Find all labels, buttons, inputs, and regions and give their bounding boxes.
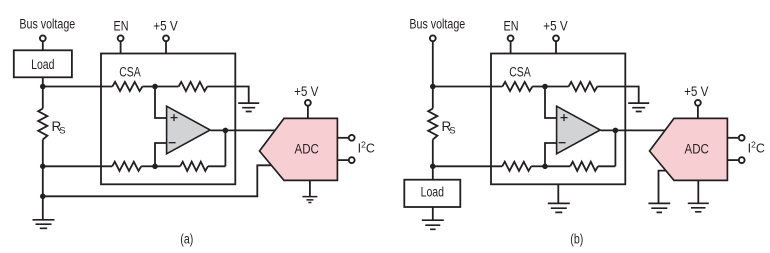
junction node V1 (b) <box>430 84 436 90</box>
junction node P (b) <box>542 84 548 90</box>
terminal +5 V (b) <box>553 35 559 41</box>
wire op-amp output to ADC (b) <box>601 129 665 131</box>
op-amp minus sign (a) <box>169 142 176 144</box>
wire node GNDA to ground (a) <box>42 196 44 220</box>
wire node N to R4 (b) <box>545 165 570 167</box>
terminal Bus voltage (a) <box>40 35 46 41</box>
wire R2 to ground stub (a) <box>207 87 248 104</box>
wire R4 to output node (a) <box>208 165 226 167</box>
svg-text:ADC: ADC <box>685 142 710 157</box>
op-amp plus sign (b) <box>561 114 568 121</box>
svg-text:CSA: CSA <box>509 65 531 80</box>
resistor R4 feedback (b) <box>570 162 598 171</box>
wire node V2 to Load top (b) <box>432 166 434 179</box>
wire node P to R2 (a) <box>155 86 179 88</box>
resistor R3 (a) <box>112 162 141 171</box>
wire ADC I2C pin 1 (a) <box>337 137 348 139</box>
wire ADC bottom to ground (a) <box>309 180 311 196</box>
terminal I2C pin 1 (a) <box>349 135 355 141</box>
svg-text:I2C: I2C <box>748 139 765 155</box>
wire bus terminal to Load top <box>42 41 44 50</box>
svg-text:+5 V: +5 V <box>294 84 318 99</box>
op-amp minus sign (b) <box>559 142 566 144</box>
terminal I2C pin 1 (b) <box>739 135 745 141</box>
wire node V1 to RS top (a) <box>42 87 44 109</box>
terminal EN (b) <box>508 35 514 41</box>
ground ADC sense (b) <box>648 203 670 212</box>
wire +5 V to ADC (a) <box>307 106 309 119</box>
wire R4 to output node (b) <box>598 165 616 167</box>
CSA box U1 (a) <box>101 54 235 185</box>
wire R1 to node P (b) <box>532 86 545 88</box>
wire ADC I2C pin 2 (a) <box>337 159 348 161</box>
svg-text:Load: Load <box>421 185 444 200</box>
wire RS bottom to node V2 (a) <box>42 140 44 167</box>
terminal Bus voltage (b) <box>430 35 436 41</box>
resistor R1 (a) <box>112 82 142 91</box>
wire R2 to ground stub (b) <box>597 87 638 104</box>
wire R3 to node N (a) <box>141 165 155 167</box>
terminal EN (a) <box>118 35 124 41</box>
wire +5 V to CSA box (a) <box>165 41 167 53</box>
junction node V2 (b) <box>430 164 436 170</box>
resistor R4 feedback (a) <box>180 162 208 171</box>
wire feedback from output node (a) <box>224 130 226 166</box>
svg-text:+5 V: +5 V <box>153 19 177 34</box>
resistor R1 (b) <box>502 82 532 91</box>
resistor R2 (b) <box>569 82 598 91</box>
wire feedback from output node (b) <box>614 130 616 166</box>
junction output node (b) <box>613 128 619 134</box>
wire Load bottom to ground (b) <box>432 207 434 220</box>
wire ADC I2C pin 1 (b) <box>727 137 738 139</box>
wire node V2 to R3 (a) <box>43 165 112 167</box>
wire EN to CSA box (a) <box>120 41 122 53</box>
junction node GNDA (a) <box>40 194 46 200</box>
wire ADC sense stub to ground (b) <box>659 171 666 204</box>
wire node V1 to R1 (a) <box>43 86 113 88</box>
wire node P to R2 (b) <box>545 86 569 88</box>
load box Load (a) <box>14 50 72 77</box>
op-amp U2 (b) <box>557 106 601 154</box>
wire node N to op-amp inverting input (a) <box>155 143 167 166</box>
svg-text:(b): (b) <box>570 232 583 247</box>
ground reference (a) <box>238 103 259 111</box>
svg-text:+5 V: +5 V <box>543 19 567 34</box>
ground CSA box (b) <box>548 203 570 212</box>
terminal I2C pin 2 (a) <box>349 157 355 163</box>
wire EN to CSA box (b) <box>510 41 512 53</box>
ground below Load (b) <box>422 220 444 229</box>
svg-text:Bus voltage: Bus voltage <box>19 16 75 31</box>
wire op-amp output to ADC (a) <box>211 129 275 131</box>
load box Load (b) <box>404 180 460 207</box>
svg-text:CSA: CSA <box>119 65 141 80</box>
junction node P (a) <box>152 84 158 90</box>
svg-text:Load: Load <box>31 57 54 72</box>
svg-text:(a): (a) <box>180 232 193 247</box>
wire node N to R4 (a) <box>155 165 180 167</box>
ground ADC (a) <box>302 197 317 203</box>
wire node V2 down to node GNDA (a) <box>42 166 44 196</box>
terminal +5 V ADC (b) <box>695 100 701 106</box>
CSA box U1 (b) <box>491 54 625 185</box>
op-amp plus sign (a) <box>171 114 178 121</box>
wire node V2 to R3 (b) <box>433 165 502 167</box>
wire R1 to node P (a) <box>142 86 155 88</box>
ground main (a) <box>33 220 55 229</box>
wire bus terminal down to node V1 (b) <box>432 41 434 86</box>
junction node V1 (a) <box>40 84 46 90</box>
svg-text:EN: EN <box>504 19 519 34</box>
svg-text:S: S <box>449 126 455 137</box>
svg-text:I2C: I2C <box>358 139 375 155</box>
resistor R2 (a) <box>179 82 208 91</box>
terminal +5 V (a) <box>163 35 169 41</box>
wire ADC bottom to ground (b) <box>697 180 699 203</box>
wire R3 to node N (b) <box>531 165 545 167</box>
ground ADC bottom (b) <box>688 203 709 212</box>
wire node V1 to RS top (b) <box>432 87 434 109</box>
svg-text:ADC: ADC <box>295 142 320 157</box>
junction output node (a) <box>223 128 229 134</box>
wire node P to op-amp noninverting input (b) <box>545 87 557 119</box>
terminal I2C pin 2 (b) <box>739 157 745 163</box>
wire node N to op-amp inverting input (b) <box>545 143 557 166</box>
ADC block U3 (a) <box>260 118 338 180</box>
wire node GNDA to ADC sense (a) <box>43 165 272 196</box>
wire ADC I2C pin 2 (b) <box>727 159 738 161</box>
wire +5 V to CSA box (b) <box>555 41 557 53</box>
svg-text:Bus voltage: Bus voltage <box>409 16 465 31</box>
resistor RS (b) <box>428 109 437 140</box>
junction node V2 (a) <box>40 164 46 170</box>
wire Load bottom to node V1 (a) <box>42 77 44 86</box>
wire node P to op-amp noninverting input (a) <box>155 87 167 119</box>
wire RS bottom to node V2 (b) <box>432 140 434 167</box>
resistor RS (a) <box>38 109 47 140</box>
junction node N (b) <box>542 164 548 170</box>
svg-text:+5 V: +5 V <box>684 84 708 99</box>
wire node V1 to R1 (b) <box>433 86 503 88</box>
terminal +5 V ADC (a) <box>305 100 311 106</box>
ADC block U3 (b) <box>650 118 728 180</box>
svg-text:EN: EN <box>114 19 129 34</box>
wire CSA box to ground (b) <box>557 184 559 203</box>
junction node N (a) <box>152 164 158 170</box>
resistor R3 (b) <box>502 162 531 171</box>
op-amp U2 (a) <box>167 106 211 154</box>
wire +5 V to ADC (b) <box>697 106 699 119</box>
svg-text:S: S <box>59 126 65 137</box>
ground reference (b) <box>628 103 649 111</box>
